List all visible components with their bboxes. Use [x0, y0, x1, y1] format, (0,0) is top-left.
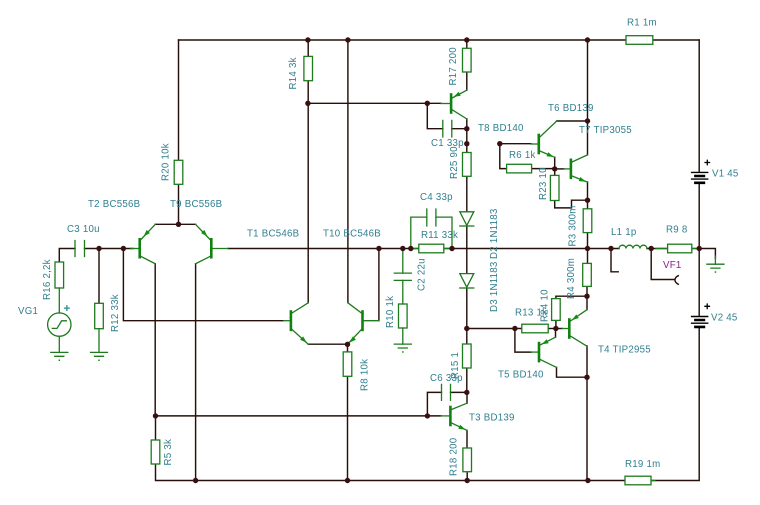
ground under VG1: [51, 352, 68, 361]
resistor R5: [151, 440, 160, 464]
svg-text:R12 33k: R12 33k: [110, 294, 121, 332]
wire T9 base to R11 node: [228, 248, 419, 250]
wire T7 emitter down: [587, 182, 589, 209]
wire right rail V2 bottom to bottom rail: [651, 328, 699, 481]
transistor T2: [131, 224, 155, 263]
transistor T7: [564, 155, 588, 182]
wire R25 bottom to D2: [466, 176, 468, 212]
resistor R25: [463, 153, 472, 177]
node R13 right / T4 base: [553, 326, 558, 331]
inductor L1: [619, 245, 647, 248]
wire C6 left branch: [427, 392, 441, 416]
wire T6 emitter down: [554, 157, 556, 169]
svg-text:R3 300m: R3 300m: [568, 205, 579, 246]
node T10 collector rail: [345, 37, 350, 42]
wire R6 right to T7 base node: [532, 168, 555, 170]
wire top positive rail: [179, 39, 627, 41]
wire T5 base drop: [515, 329, 531, 353]
wire T6 base from T8 collector node: [500, 143, 531, 145]
capacitor C6: [442, 384, 451, 400]
resistor R4: [583, 263, 592, 286]
wire R12 drop: [98, 249, 100, 304]
svg-text:T8 BD140: T8 BD140: [478, 123, 524, 134]
wire R18 bottom to bottom rail: [466, 472, 468, 481]
wire T10 base drop: [378, 249, 380, 321]
wire T5 collector to T4 collector line: [557, 367, 588, 377]
capacitor C1: [443, 120, 452, 137]
transistor T9: [196, 224, 228, 263]
wire T1 collector up to R14: [307, 81, 309, 303]
wire R23 bottom jog to T7 emitter node: [555, 200, 588, 208]
node input/feedback: [121, 246, 126, 251]
node C1 right / T8 collector: [464, 126, 469, 131]
wire D2 to D3 crossing output line: [466, 226, 468, 274]
ground at output right: [707, 256, 724, 273]
wire R9 right to right rail: [692, 248, 699, 250]
svg-text:L1 1p: L1 1p: [611, 227, 637, 238]
capacitor C2: [394, 249, 411, 305]
svg-text:T6 BD139: T6 BD139: [548, 103, 594, 114]
wire T9 collector down to bottom rail: [195, 264, 197, 481]
wire output stub below L1: [611, 249, 618, 272]
svg-text:R6 1k: R6 1k: [509, 150, 536, 161]
node T6/T7 collector rail: [585, 37, 590, 42]
wire R17 top to rail: [466, 40, 468, 48]
node C4/R11 right: [449, 246, 454, 251]
wire R24 bottom to T4 base node: [555, 320, 557, 328]
wire R5 top lead: [155, 416, 157, 440]
node T2 collector / R5: [153, 413, 158, 418]
wire T8 emitter to R17: [466, 72, 468, 90]
node R14 bottom: [305, 101, 310, 106]
wire T4 collector to bottom rail: [586, 346, 588, 481]
svg-text:R11 33k: R11 33k: [421, 230, 458, 241]
node T3 base / C6: [425, 413, 430, 418]
probe hook VF1: [675, 276, 678, 285]
wire R14 top to rail: [307, 40, 309, 56]
resistor R8: [343, 352, 352, 376]
resistor R24: [552, 299, 561, 321]
wire bias node to R13: [467, 328, 522, 330]
svg-text:VF1: VF1: [663, 260, 682, 271]
wire R6 left branch: [500, 144, 507, 169]
wire feedback node to T1 base: [123, 249, 283, 321]
node R18 bottom rail: [465, 478, 470, 483]
transistor T6: [531, 121, 557, 157]
svg-text:R8 10k: R8 10k: [360, 359, 371, 391]
resistor R9: [656, 244, 696, 253]
wire T7 base lead: [555, 168, 564, 170]
svg-text:C2 22u: C2 22u: [417, 258, 428, 291]
capacitor C3: [75, 241, 85, 257]
resistor R11: [411, 244, 452, 253]
wire R14 node to T8 base: [308, 102, 441, 104]
wire emitter junction to R8: [347, 344, 349, 352]
resistor R6: [507, 164, 532, 173]
wire T6 collector to rail drop: [557, 120, 588, 122]
svg-text:T3 BD139: T3 BD139: [469, 413, 515, 424]
svg-text:R20 10k: R20 10k: [161, 143, 172, 181]
transistor T4: [562, 310, 587, 347]
wire R15 bottom to C6 node: [466, 368, 468, 392]
svg-text:T4 TIP2955: T4 TIP2955: [598, 345, 651, 356]
capacitor C4: [411, 209, 452, 249]
wire T2/T9 emitter rail: [155, 223, 195, 225]
node T6 emitter / T7 base: [552, 166, 557, 171]
svg-text:T7 TIP3055: T7 TIP3055: [579, 125, 632, 136]
wire input corner R16 to C3: [59, 249, 75, 263]
wire C6 right plate to T3 collector node: [451, 391, 467, 393]
svg-text:R5 3k: R5 3k: [163, 439, 174, 466]
wire to output ground: [699, 249, 715, 259]
wire T3 emitter to R18: [466, 430, 468, 448]
node L1 right / VF1: [649, 246, 654, 251]
wire T8 collector down bias chain: [466, 119, 468, 153]
resistor R3: [583, 209, 592, 233]
svg-text:R15 1: R15 1: [450, 352, 461, 379]
wire T10 collector up to rail: [347, 40, 349, 303]
resistor R16: [55, 262, 64, 288]
node T8 collector / R25: [464, 141, 469, 146]
node output R3/R4: [585, 246, 590, 251]
wire right rail V1 bottom to output node: [698, 184, 700, 316]
wire VF1 probe lead: [651, 249, 674, 280]
transistor T10: [348, 303, 379, 344]
svg-text:R16 2,2k: R16 2,2k: [42, 259, 53, 300]
resistor R20: [174, 160, 183, 184]
resistor R18: [463, 448, 472, 472]
wire R4 bottom to T4 emitter node: [586, 286, 588, 309]
wire T2 collector down to R5 node: [154, 264, 156, 416]
ground under R12: [91, 329, 108, 361]
wire L1 right to R9: [647, 248, 668, 250]
wire right rail V1 top: [698, 40, 700, 172]
resistor R1: [626, 36, 653, 45]
generator VG1: [48, 288, 71, 352]
wire R3 bottom to output rail: [587, 233, 589, 264]
diode D2: [460, 212, 474, 226]
resistor R12: [95, 303, 104, 328]
wire C1 right plate to T8 collector: [452, 128, 467, 130]
wire C1 left branch from T8 base node: [427, 103, 443, 128]
node R8 bottom rail: [345, 478, 350, 483]
node T4 collector bottom rail: [585, 478, 590, 483]
wire T4 emitter node to R24: [556, 296, 587, 298]
battery V2: [691, 303, 710, 327]
svg-text:R1 1m: R1 1m: [627, 18, 657, 29]
svg-text:C4 33p: C4 33p: [420, 192, 453, 203]
wire rail drop to T7 collector: [587, 40, 589, 155]
wire C3 to T2 base: [85, 248, 134, 250]
node bias chain bottom: [464, 326, 469, 331]
wire T5 emitter up: [555, 329, 557, 338]
svg-text:R9 8: R9 8: [666, 225, 687, 236]
resistor R13: [522, 324, 548, 333]
node C2 tap: [400, 246, 405, 251]
svg-text:R14 3k: R14 3k: [288, 57, 299, 89]
node T4 emitter / R4: [584, 294, 589, 299]
wire left drop from top rail to R20: [178, 40, 180, 160]
wire R13 right to T4 base: [548, 328, 562, 330]
svg-text:D2 1N1183: D2 1N1183: [489, 208, 500, 259]
node T7 emitter / R23: [585, 198, 590, 203]
wire D3 to R13 node: [466, 288, 468, 344]
wire R8 bottom to bottom rail: [347, 376, 349, 480]
resistor R10: [399, 304, 408, 328]
wire R11 right to output rail at R3/R4: [444, 248, 619, 250]
diode D3: [460, 274, 474, 288]
node T6 collector: [585, 118, 590, 123]
transistor T5: [531, 337, 557, 367]
resistor R23: [550, 175, 559, 200]
svg-text:R17 200: R17 200: [448, 47, 459, 86]
wire T3 collector up: [466, 392, 468, 403]
svg-text:T9 BC556B: T9 BC556B: [170, 199, 222, 210]
node R12 input: [96, 246, 101, 251]
transistor T8: [441, 90, 467, 119]
transistor T1: [284, 303, 309, 344]
svg-text:R19 1m: R19 1m: [625, 459, 660, 470]
battery V1: [691, 160, 710, 183]
wire R20 bottom to T2/T9 emitter rail: [178, 184, 180, 224]
node R14 top rail: [305, 37, 310, 42]
svg-text:V2 45: V2 45: [711, 313, 738, 324]
wire top rail right of R1: [653, 39, 699, 41]
svg-text:D3 1N1183: D3 1N1183: [489, 261, 500, 312]
svg-text:T10 BC546B: T10 BC546B: [323, 229, 381, 240]
node R9 right / supplies: [697, 246, 702, 251]
node R17 top rail: [464, 37, 469, 42]
ground under R10: [394, 328, 411, 353]
svg-text:T1 BC546B: T1 BC546B: [247, 229, 299, 240]
resistor R14: [304, 56, 313, 80]
wire R23 top lead: [554, 169, 556, 176]
node T1/T10 emitters / R8: [345, 342, 350, 347]
node T10 base: [376, 246, 381, 251]
node R6 branch: [497, 141, 502, 146]
node T8 base / C1: [425, 101, 430, 106]
svg-text:V1 45: V1 45: [712, 169, 739, 180]
node T4/T5 collectors: [584, 375, 589, 380]
node R13 left / T5 base: [512, 326, 517, 331]
svg-text:T5 BD140: T5 BD140: [498, 370, 544, 381]
node T9 collector bottom rail: [193, 478, 198, 483]
node R15 / C6 / T3 collector: [464, 390, 469, 395]
svg-text:R4 300m: R4 300m: [566, 258, 577, 299]
svg-text:R18 200: R18 200: [449, 437, 460, 476]
svg-text:C3 10u: C3 10u: [67, 224, 100, 235]
resistor R19: [625, 476, 655, 485]
wire bottom negative rail: [156, 464, 626, 481]
node C4/R11 left: [408, 246, 413, 251]
svg-text:R24 10: R24 10: [540, 289, 551, 322]
svg-text:VG1: VG1: [18, 306, 38, 317]
resistor R17: [463, 48, 472, 72]
svg-text:R23 10: R23 10: [538, 167, 549, 200]
node T2/T9 emitters: [176, 222, 181, 227]
transistor T3: [441, 403, 467, 430]
svg-text:R10 1k: R10 1k: [385, 296, 396, 328]
node L1 left: [608, 246, 613, 251]
svg-text:R25 90: R25 90: [449, 146, 460, 179]
resistor R15: [463, 344, 472, 368]
wire T3 base line from R5 node: [156, 415, 442, 417]
svg-text:T2 BC556B: T2 BC556B: [88, 199, 140, 210]
wire T1/T10 emitter rail: [308, 343, 347, 345]
